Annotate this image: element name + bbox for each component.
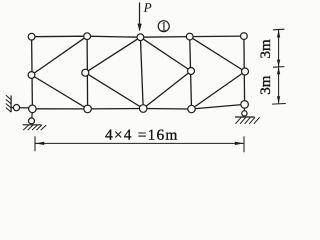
svg-text:3m: 3m: [258, 39, 274, 59]
svg-text:4×4 =16m: 4×4 =16m: [105, 127, 179, 144]
svg-text:P: P: [143, 0, 152, 15]
svg-text:1: 1: [161, 19, 168, 34]
svg-text:3m: 3m: [258, 75, 274, 95]
